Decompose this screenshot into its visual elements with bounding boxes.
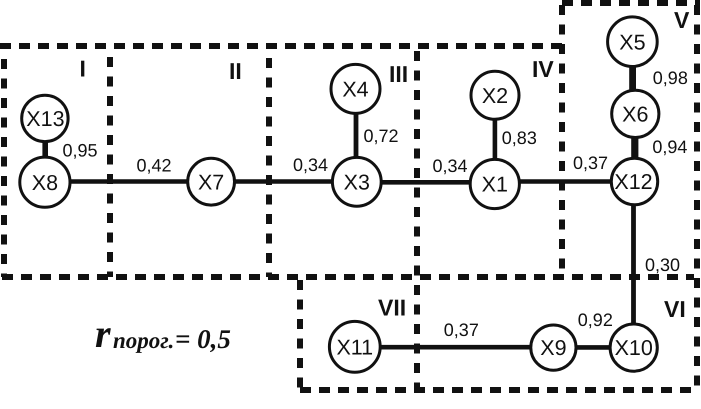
svg-text:0,34: 0,34 (433, 156, 468, 176)
node X10 (610, 324, 657, 371)
wire X9-X10 (575, 345, 611, 350)
wire X3-X1 (380, 180, 471, 185)
svg-text:X6: X6 (622, 103, 648, 127)
svg-text:X4: X4 (342, 78, 368, 102)
svg-text:II: II (229, 58, 242, 84)
divider I/II (107, 57, 113, 277)
node X7 (188, 158, 235, 205)
wire X7-X3 (234, 179, 333, 184)
svg-text:0,30: 0,30 (645, 255, 680, 275)
svg-text:X12: X12 (614, 170, 652, 194)
right edge of boxes V and VI (694, 5, 700, 390)
wire X6-X12 (631, 135, 638, 160)
svg-text:X10: X10 (615, 336, 653, 360)
wire X5-X6 (629, 64, 636, 92)
divider II/III (266, 58, 272, 277)
cluster bottom edge I-IV and V, top of VI-VII (2, 274, 694, 280)
node X4 (331, 64, 380, 113)
svg-text:VI: VI (664, 296, 686, 322)
svg-text:= 0,5: = 0,5 (175, 324, 231, 354)
node X12 (611, 158, 657, 204)
svg-text:0,95: 0,95 (63, 141, 98, 161)
svg-text:X9: X9 (540, 336, 566, 360)
svg-text:0,37: 0,37 (573, 153, 608, 173)
svg-text:0,37: 0,37 (444, 320, 479, 340)
box VII left edge (297, 280, 303, 390)
svg-text:0,42: 0,42 (137, 156, 172, 176)
wire X1-X12 (518, 179, 612, 184)
svg-text:X2: X2 (482, 84, 508, 108)
cluster box VI-VII bottom edge (300, 387, 698, 393)
node X5 (608, 17, 658, 67)
svg-text:0,83: 0,83 (502, 128, 537, 148)
svg-text:III: III (389, 61, 408, 87)
svg-text:X8: X8 (32, 171, 58, 195)
svg-text:r: r (95, 311, 111, 356)
node X9 (531, 325, 576, 370)
svg-text:0,92: 0,92 (578, 310, 613, 330)
node X13 (22, 95, 68, 141)
threshold formula r_porog = 0,5 (95, 311, 231, 356)
svg-text:I: I (80, 56, 86, 82)
wire X11-X9 (379, 345, 532, 350)
wire X8-X7 (69, 179, 188, 184)
svg-text:0,72: 0,72 (364, 126, 399, 146)
svg-text:X3: X3 (344, 170, 370, 194)
svg-text:V: V (674, 7, 690, 33)
cluster box V top edge (562, 0, 700, 6)
node X1 (470, 159, 519, 208)
box I left edge (1, 59, 7, 277)
node X8 (20, 157, 70, 207)
wire X13-X8 (42, 140, 48, 159)
svg-text:VII: VII (378, 295, 406, 321)
node X3 (332, 157, 381, 206)
svg-text:X5: X5 (619, 30, 645, 54)
wire X4-X3 (354, 112, 359, 159)
svg-text:0,34: 0,34 (293, 155, 328, 175)
svg-text:X7: X7 (198, 170, 224, 194)
svg-text:0,94: 0,94 (652, 137, 687, 157)
svg-text:X11: X11 (336, 335, 373, 359)
svg-text:порог.: порог. (113, 328, 174, 353)
wire X12-X10 (631, 204, 636, 325)
node X6 (612, 90, 659, 137)
cluster box top edge I-IV (0, 43, 562, 49)
wire X2-X1 (493, 118, 498, 161)
divider IV/V left edge of box V (559, 5, 565, 277)
node X2 (471, 71, 519, 119)
svg-text:X1: X1 (482, 173, 508, 197)
node X11 (329, 321, 380, 372)
svg-text:IV: IV (532, 56, 554, 82)
divider III/IV continuing through VII (414, 51, 420, 390)
svg-text:X13: X13 (26, 107, 64, 131)
svg-text:0,98: 0,98 (653, 68, 688, 88)
